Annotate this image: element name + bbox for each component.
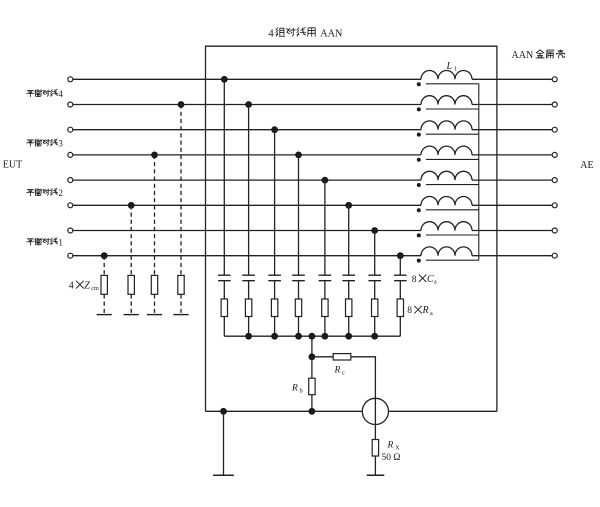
svg-text:R: R [422,305,429,316]
label: 平衡对线4 [27,89,64,99]
inductor L1 winding 5 [421,171,472,180]
wire row 8 right [472,255,552,257]
AE terminal row 3 [552,127,557,132]
wire chassis ground [223,411,225,475]
wire capacitor 7 to resistor [374,281,376,299]
svg-text:4: 4 [58,89,63,99]
node dot Zcm branch 3 [151,152,158,159]
AE terminal row 7 [552,228,557,233]
wire row 5 right [472,179,552,181]
winding 5 polarity dot [417,183,421,187]
wire branch 1 down to capacitor [223,79,225,275]
winding 1 return wire [426,83,479,85]
wire capacitor 4 to resistor [298,281,300,299]
winding 6 return wire [426,209,479,211]
svg-text:X: X [395,445,400,452]
svg-text:cm: cm [91,285,99,292]
svg-text:R: R [387,441,394,451]
wire Rc to measuring port [351,357,376,399]
wire row 6 left [73,204,421,206]
EUT terminal row 1 [68,77,73,82]
svg-text:3: 3 [58,139,63,149]
label: 平衡对线2 [27,188,63,198]
svg-text:EUT: EUT [3,160,22,171]
capacitor Ca 4 [292,275,305,281]
wire capacitor 2 to resistor [248,281,250,299]
svg-text:AAN: AAN [512,50,534,61]
dashed wire Zcm branch 1 upper [103,256,105,276]
wire Rx to ground [374,456,376,475]
capacitor Ca 5 [319,275,332,281]
winding common vertical wire [478,84,480,260]
AE terminal row 1 [552,77,557,82]
wire row 4 right [472,154,552,156]
resistor Ra 7 [372,299,378,317]
bus junction dot x=312 [309,333,316,340]
ground bar chassis [213,474,234,476]
EUT terminal row 2 [68,102,73,107]
wire resistor 2 to bus [248,317,250,337]
impedance Zcm 3 [151,275,157,294]
winding 7 return wire [426,234,479,236]
ground bar Zcm 4 [173,314,188,316]
measuring port circle [362,398,388,424]
capacitor Ca 3 [268,275,281,281]
svg-text:a: a [430,310,433,317]
svg-text:b: b [300,388,303,395]
wire branch 7 down to capacitor [374,231,376,276]
wire through port down to Rx [374,398,376,439]
node dot branch 7 on wire 7 [371,227,378,234]
svg-text:4: 4 [268,28,274,40]
resistor Rx [372,440,378,457]
dashed wire Zcm branch 4 lower [180,294,182,314]
svg-text:4: 4 [69,280,74,291]
wire row 2 left [73,104,421,106]
resistor Rc [333,354,351,360]
ground bar Zcm 3 [147,314,162,316]
impedance Zcm 1 [101,275,107,294]
title label: 4组对线用 AAN [268,28,343,40]
winding 8 polarity dot [417,259,421,263]
AE terminal row 6 [552,203,557,208]
wire resistor 8 to bus [399,317,401,337]
wire resistor 4 to bus [298,317,300,337]
dashed wire Zcm branch 2 lower [130,294,132,314]
ground bar Rx [367,474,385,476]
common bus wire [224,335,400,337]
ground bar Zcm 1 [97,314,112,316]
capacitor Ca 7 [368,275,381,281]
dashed wire Zcm branch 3 upper [154,155,156,276]
capacitor Ca 1 [218,275,231,281]
svg-text:R: R [334,366,341,376]
resistor Ra 8 [397,299,403,317]
impedance Zcm 2 [128,275,134,294]
EUT terminal row 4 [68,152,73,157]
winding 8 return wire [426,259,479,261]
bus junction dot x=298 [295,333,302,340]
node dot Zcm branch 4 [178,101,185,108]
svg-text:a: a [434,279,437,286]
wire node to Rb [311,357,313,378]
wire branch 5 down to capacitor [324,180,326,275]
inductor L1 winding 6 [421,196,472,205]
bus junction dot x=349 [345,333,352,340]
wire resistor 7 to bus [374,317,376,337]
AE terminal row 5 [552,178,557,183]
dashed wire Zcm branch 2 upper [130,205,132,275]
svg-text:c: c [342,370,345,377]
wire bus tap down [311,336,313,357]
AAN enclosure box [206,46,497,411]
inductor L1 winding 3 [421,121,472,130]
EUT terminal row 5 [68,178,73,183]
svg-text:AAN: AAN [320,28,343,39]
wire row 3 left [73,129,421,131]
wire branch 8 down to capacitor [399,256,401,276]
bus junction dot x=325 [322,333,329,340]
wire branch 4 down to capacitor [298,155,300,275]
bus junction dot x=275 [271,333,278,340]
resistor Ra 6 [346,299,352,317]
svg-text:50 Ω: 50 Ω [382,453,401,463]
winding 2 return wire [426,108,479,110]
wire row 1 right [472,78,552,80]
svg-text:8: 8 [407,306,412,316]
winding 7 polarity dot [417,233,421,237]
svg-text:AE: AE [580,160,593,171]
resistor Ra 2 [245,299,251,317]
winding 6 polarity dot [417,208,421,212]
node dot branch 8 on wire 8 [397,252,404,259]
wire resistor 6 to bus [348,317,350,337]
wire capacitor 3 to resistor [274,281,276,299]
winding 4 polarity dot [417,158,421,162]
junction dot Rb bottom [309,408,316,415]
svg-text:1: 1 [58,238,63,248]
resistor Ra 5 [322,299,328,317]
wire node to Rc [312,356,333,358]
impedance Zcm 4 [178,275,184,294]
svg-text:L: L [446,61,453,72]
bus junction dot x=375 [371,333,378,340]
AE terminal row 4 [552,152,557,157]
EUT terminal row 8 [68,253,73,258]
svg-text:R: R [291,384,298,394]
winding 1 polarity dot [417,82,421,86]
resistor Rb [309,378,315,395]
wire branch 6 down to capacitor [348,205,350,275]
label: AAN 金属壳 [512,50,565,61]
winding 5 return wire [426,184,479,186]
wire resistor 5 to bus [324,317,326,337]
EUT terminal row 3 [68,127,73,132]
resistor Ra 4 [295,299,301,317]
junction dot chassis ground [220,408,227,415]
dashed wire Zcm branch 1 lower [103,294,105,314]
node dot Rb/Rc [309,353,316,360]
wire row 8 left [73,255,421,257]
wire capacitor 1 to resistor [223,281,225,299]
node dot branch 2 on wire 2 [245,101,252,108]
winding 2 polarity dot [417,107,421,111]
svg-text:1: 1 [454,66,457,73]
svg-text:Z: Z [84,280,90,291]
wire branch 3 down to capacitor [274,130,276,276]
node dot branch 5 on wire 5 [322,177,329,184]
wire resistor 3 to bus [274,317,276,337]
wire row 7 left [73,230,421,232]
node dot Zcm branch 2 [128,202,135,209]
wire capacitor 8 to resistor [399,281,401,299]
wire row 3 right [472,129,552,131]
resistor Ra 1 [221,299,227,317]
svg-text:8: 8 [412,275,417,285]
wire row 6 right [472,204,552,206]
capacitor Ca 6 [342,275,355,281]
label: 平衡对线1 [27,238,63,248]
capacitor Ca 8 [394,275,407,281]
EUT terminal row 6 [68,203,73,208]
wire resistor 1 to bus [223,317,225,337]
svg-text:2: 2 [58,188,63,198]
node dot branch 1 on wire 1 [221,76,228,83]
wire row 2 right [472,104,552,106]
dashed wire Zcm branch 4 upper [180,105,182,276]
wire Rb to bottom [311,395,313,412]
wire capacitor 5 to resistor [324,281,326,299]
AE terminal row 8 [552,253,557,258]
label: 平衡对线3 [27,139,64,149]
EUT terminal row 7 [68,228,73,233]
wire capacitor 6 to resistor [348,281,350,299]
wire row 5 left [73,179,421,181]
ground bar Zcm 2 [124,314,139,316]
node dot Zcm branch 1 [101,252,108,259]
wire row 7 right [472,230,552,232]
winding 3 return wire [426,133,479,135]
inductor L1 winding 2 [421,96,472,105]
bus junction dot x=249 [245,333,252,340]
inductor L1 winding 1 [421,71,472,80]
winding 3 polarity dot [417,133,421,137]
dashed wire Zcm branch 3 lower [154,294,156,314]
inductor L1 winding 4 [421,146,472,155]
AE terminal row 2 [552,102,557,107]
wire branch 2 down to capacitor [248,105,250,276]
node dot branch 4 on wire 4 [295,152,302,159]
wire row 1 left [73,78,421,80]
wire row 4 left [73,154,421,156]
resistor Ra 3 [271,299,277,317]
node dot branch 6 on wire 6 [345,202,352,209]
inductor L1 winding 8 [421,247,472,256]
capacitor Ca 2 [242,275,255,281]
inductor L1 winding 7 [421,222,472,231]
winding 4 return wire [426,158,479,160]
node dot branch 3 on wire 3 [271,126,278,133]
